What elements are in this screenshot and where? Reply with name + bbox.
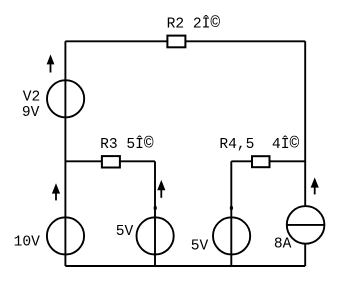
resistor R4,5	[252, 156, 270, 167]
label V2 name	[23, 89, 41, 105]
svg-text:5V: 5V	[191, 238, 209, 254]
label 5V left	[116, 224, 134, 240]
node dot branch B1	[154, 206, 157, 210]
wire bottom	[65, 265, 305, 267]
node dot branch B2	[230, 206, 233, 210]
wire middle-left	[65, 160, 155, 162]
arrow 8A	[311, 179, 318, 195]
svg-text:R4,5 4Î©: R4,5 4Î©	[219, 135, 299, 153]
label 5V right	[191, 238, 209, 254]
wire branch B2 vertical	[230, 161, 232, 266]
wire middle-right	[231, 160, 305, 162]
svg-text:R3 5Î©: R3 5Î©	[100, 135, 154, 153]
label 8A	[274, 236, 292, 252]
current source 8A	[287, 206, 325, 244]
arrow 10V	[53, 184, 60, 200]
voltage source 10V	[47, 217, 84, 254]
arrow V2	[47, 56, 54, 73]
label V2 value 9V	[22, 105, 40, 121]
voltage source 5V right	[213, 217, 250, 254]
label R2 value	[167, 14, 221, 32]
wire right	[304, 41, 306, 266]
voltage source 5V left	[137, 217, 174, 254]
voltage source V2	[47, 80, 84, 117]
svg-text:5V: 5V	[116, 224, 134, 240]
arrow 5V left	[158, 181, 165, 198]
resistor R2	[167, 36, 185, 48]
svg-text:8A: 8A	[274, 236, 292, 252]
label 10V	[14, 235, 41, 251]
wire branch B1 vertical	[154, 161, 156, 266]
wire left	[64, 41, 66, 266]
svg-text:10V: 10V	[14, 235, 41, 251]
resistor R3	[102, 156, 120, 167]
label R4,5 value	[219, 135, 299, 153]
label R3 value	[100, 135, 154, 153]
wire top	[65, 40, 305, 42]
svg-text:R2 2Î©: R2 2Î©	[167, 14, 221, 32]
svg-text:9V: 9V	[22, 105, 40, 121]
svg-text:V2: V2	[23, 89, 41, 105]
